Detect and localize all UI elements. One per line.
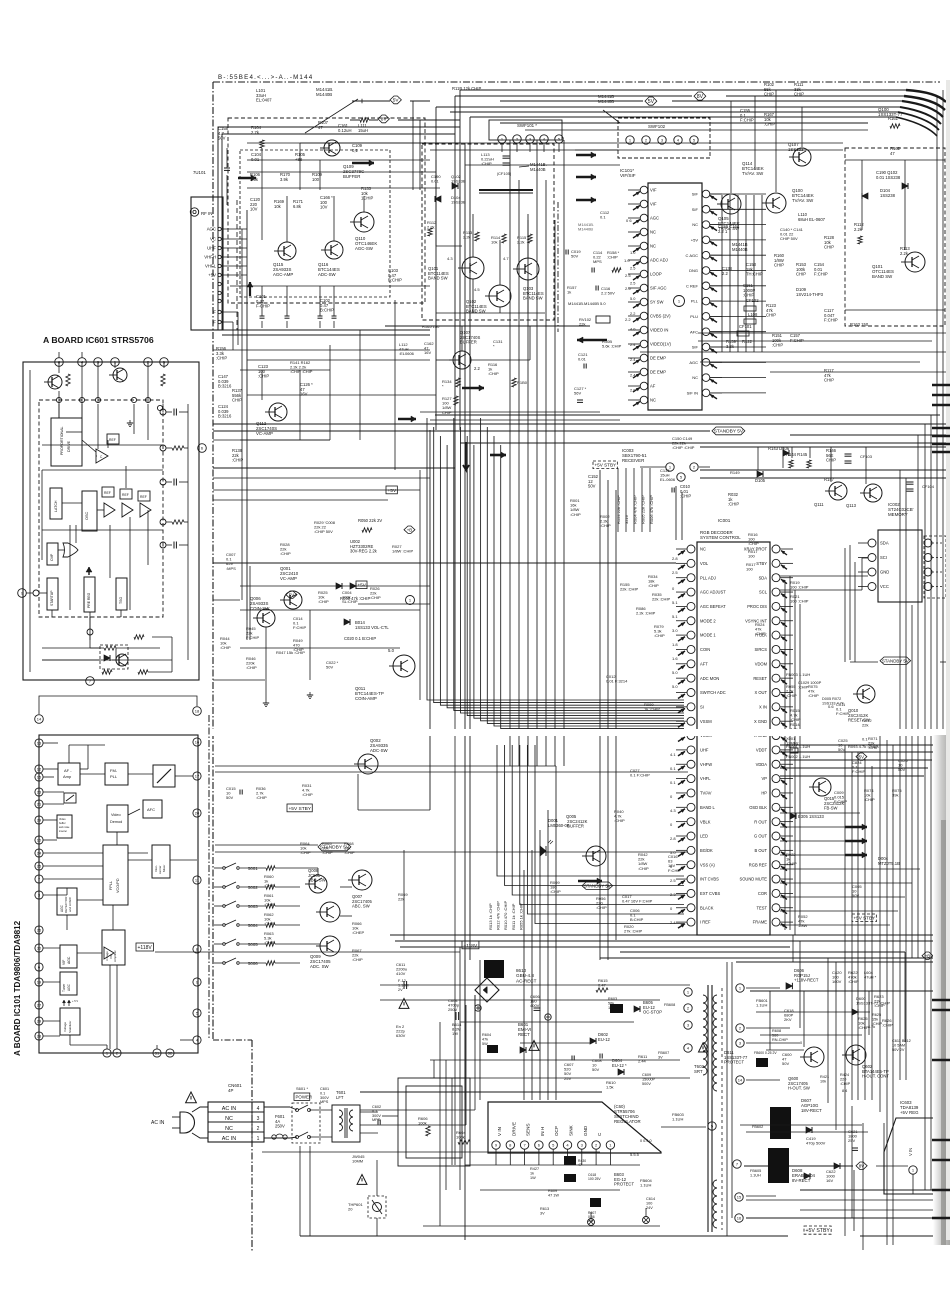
svg-text:|CF105|: |CF105| xyxy=(497,171,511,176)
wires pins top going up xyxy=(58,352,60,358)
svg-text:Demod: Demod xyxy=(110,820,122,824)
transistor Q102c xyxy=(489,285,511,307)
scan seam white band xyxy=(212,729,950,736)
svg-text:5006: 5006 xyxy=(248,961,258,966)
svg-text:AGC: AGC xyxy=(67,956,71,964)
wire x465 bottom xyxy=(464,960,466,1100)
net label +118V boxed left xyxy=(136,943,154,951)
net label 8V left xyxy=(378,115,389,123)
bold arrow into amp xyxy=(238,177,256,180)
IC101d left pin 26 xyxy=(35,926,43,934)
svg-text:AGC: AGC xyxy=(67,983,71,991)
svg-text:PLL: PLL xyxy=(691,299,699,304)
tuner wires to bus xyxy=(221,228,247,230)
wire y1035 right xyxy=(760,1034,862,1036)
svg-text:DE EMP: DE EMP xyxy=(650,370,666,375)
wire x395 vert xyxy=(394,300,396,470)
bus wire xyxy=(436,106,900,108)
T602 core xyxy=(707,985,709,1232)
svg-text:29: 29 xyxy=(37,818,42,823)
svg-text:VP: VP xyxy=(762,776,768,781)
svg-text:1.0: 1.0 xyxy=(630,250,636,255)
svg-text:SIF: SIF xyxy=(692,345,699,350)
svg-text:M1441B.M1440B 5.0: M1441B.M1440B 5.0 xyxy=(568,301,606,306)
shield dashed box band switch left xyxy=(422,144,554,320)
svg-text:2.4: 2.4 xyxy=(670,920,676,925)
IC001 right pin X OUT xyxy=(772,689,780,697)
IC101d right pin 11 xyxy=(193,876,201,884)
svg-text:NC: NC xyxy=(650,230,656,235)
svg-text:CF102: CF102 xyxy=(746,298,759,303)
bold arrow xyxy=(576,199,596,202)
svg-text:C AGC: C AGC xyxy=(686,253,699,258)
switch S001 xyxy=(223,867,226,870)
wire lower ribbon to IC001 low pins xyxy=(497,745,684,876)
svg-text:SY SW: SY SW xyxy=(650,300,663,305)
wire band sw xyxy=(435,160,437,246)
svg-text:7U101: 7U101 xyxy=(193,170,206,175)
wire y1190 xyxy=(746,1195,776,1197)
wire y991 diode row xyxy=(750,990,946,992)
node junction 1 xyxy=(406,596,415,605)
wire tuner vertical bus xyxy=(246,210,248,620)
IC003 pin 2 xyxy=(690,463,698,471)
wire y852 xyxy=(215,851,688,853)
wire y1078 xyxy=(430,1077,690,1079)
svg-text:VHFL: VHFL xyxy=(205,264,217,269)
svg-text:5.1: 5.1 xyxy=(672,600,678,605)
IC001 right pin X GND xyxy=(772,732,780,740)
svg-text:B305 1SS133: B305 1SS133 xyxy=(798,814,825,819)
svg-text:UHF: UHF xyxy=(207,246,216,251)
svg-text:L11115uH: L11115uH xyxy=(358,123,368,133)
svg-text:5001: 5001 xyxy=(248,866,258,871)
svg-text:STBY: STBY xyxy=(756,561,767,566)
right edge thick exit marks xyxy=(932,384,950,387)
svg-text:17: 17 xyxy=(195,774,200,779)
T602 lower pins xyxy=(735,1193,743,1201)
wire x455 bottom xyxy=(454,700,456,1165)
IC001 right pin OSD BLK xyxy=(772,803,780,811)
T602 primary pins xyxy=(684,988,692,996)
IC001 left pin BAND L xyxy=(687,803,695,811)
warning triangle3 xyxy=(699,1043,708,1052)
svg-text:R011 1k :CHIP: R011 1k :CHIP xyxy=(511,903,516,930)
svg-text:5V: 5V xyxy=(859,754,864,759)
svg-text:29: 29 xyxy=(37,1019,42,1024)
svg-text:STANDBY 5V: STANDBY 5V xyxy=(882,658,909,663)
svg-text:+ 5 V: + 5 V xyxy=(72,999,78,1003)
IC601 regulator pin circle 3 xyxy=(578,1141,586,1149)
svg-text:FRAME: FRAME xyxy=(753,920,768,925)
svg-text:5.0: 5.0 xyxy=(388,648,395,653)
wire 8V left stub xyxy=(350,119,360,121)
IC001 right pin RGB REF xyxy=(772,861,780,869)
svg-text:Voltage: Voltage xyxy=(63,1022,67,1032)
wire x247 bottom xyxy=(246,620,248,640)
svg-text:STANDBY 5V: STANDBY 5V xyxy=(714,429,744,435)
IC002 right pin xyxy=(924,568,932,576)
svg-text:A BOARD IC601 STRS5706: A BOARD IC601 STRS5706 xyxy=(43,335,154,345)
bus wire y470 xyxy=(700,469,946,471)
bottom cluster dashed box xyxy=(100,645,128,669)
SWF102 pin 5 xyxy=(690,136,698,144)
svg-text:DNG: DNG xyxy=(689,268,698,273)
IC002 dashed box xyxy=(924,536,946,598)
svg-text:R153100kCHIP: R153100kCHIP xyxy=(796,262,807,277)
svg-text:15: 15 xyxy=(737,1195,742,1200)
svg-text:FB6051.1UH: FB6051.1UH xyxy=(750,1169,761,1177)
wire x676 vertical xyxy=(675,486,677,540)
warning triangle AC xyxy=(186,1092,197,1103)
bus wire standby xyxy=(213,430,710,432)
dash-dot shield boundary vertical xyxy=(557,202,559,332)
net label +118V xyxy=(462,941,479,949)
IC001 left pin I REF xyxy=(687,918,695,926)
svg-text:X GND: X GND xyxy=(754,719,767,724)
wire x804 vert xyxy=(803,991,805,1047)
SWF102 pin 2 xyxy=(642,136,650,144)
IC001 left pin AGC ADJUST xyxy=(687,588,695,596)
svg-text:AGC ADJUST: AGC ADJUST xyxy=(700,590,726,595)
svg-text:REF: REF xyxy=(122,493,129,497)
svg-text:SIRCS: SIRCS xyxy=(754,647,767,652)
svg-text:FB608: FB608 xyxy=(664,1003,675,1007)
wire y1022 xyxy=(460,1021,634,1023)
voltage stab arrows xyxy=(63,1000,65,1006)
svg-text:21: 21 xyxy=(37,802,42,807)
transistor Q113 xyxy=(864,484,882,502)
svg-text:IF: IF xyxy=(212,320,216,325)
svg-text:+5V: +5V xyxy=(208,273,216,278)
IC601 pin 6 right xyxy=(198,444,207,453)
shield dashed box AGC inner xyxy=(240,150,390,297)
scan gutter xyxy=(933,735,950,1245)
svg-text:15: 15 xyxy=(37,775,42,780)
wire x905 vert xyxy=(904,952,906,1042)
svg-text:+B: +B xyxy=(925,953,931,958)
IC601 dashed-edge circles xyxy=(56,397,61,402)
wire regulator to T602 xyxy=(661,1126,706,1128)
svg-text:4: 4 xyxy=(257,1106,260,1112)
wire xyxy=(454,96,456,700)
svg-text:R143 D106: R143 D106 xyxy=(768,446,790,451)
IC101d left pin 12 xyxy=(35,765,43,773)
svg-text:SIF IN: SIF IN xyxy=(687,391,698,396)
bus wire with 8V label xyxy=(455,95,692,97)
caps row xyxy=(260,315,265,317)
svg-text:+5V: +5V xyxy=(691,238,699,243)
SWF102 pin 1 xyxy=(626,136,634,144)
wire y341 right xyxy=(698,340,932,342)
wire nested box bottom xyxy=(218,329,430,331)
comparator triangles x3 xyxy=(104,503,115,517)
svg-text:3: 3 xyxy=(257,1116,260,1122)
svg-text:M1441B.M1440B: M1441B.M1440B xyxy=(578,222,594,232)
IC101 left pin ADC ADJ xyxy=(640,256,648,264)
IC002 body xyxy=(878,530,922,602)
svg-text:14: 14 xyxy=(37,717,42,722)
svg-text:STANDBY 5V: STANDBY 5V xyxy=(584,883,611,888)
svg-text:R047 15k :CHIP: R047 15k :CHIP xyxy=(276,650,305,655)
svg-text:COIN: COIN xyxy=(700,647,710,652)
bold arrow on bus xyxy=(398,418,416,421)
IC101d left pin 27 xyxy=(35,1001,43,1009)
switch S003 xyxy=(223,905,226,908)
wire y985 xyxy=(380,984,690,986)
svg-text:B OUT: B OUT xyxy=(754,848,767,853)
svg-text:VOL: VOL xyxy=(700,561,709,566)
degauss verticals xyxy=(433,1060,435,1078)
wire IC002 verticals xyxy=(844,548,846,662)
IC101d left pin 7 xyxy=(35,875,43,883)
dashed vertical near tuner xyxy=(236,200,238,330)
IC101 left pin NC xyxy=(640,242,648,250)
IC002 right pin xyxy=(924,539,932,547)
svg-text:M1441B.M1440B: M1441B.M1440B xyxy=(530,162,547,172)
svg-text:0 6: 0 6 xyxy=(626,218,632,223)
svg-text:R050 22k 2V: R050 22k 2V xyxy=(358,518,382,523)
wire xyxy=(249,566,251,640)
bold arrow xyxy=(576,154,596,157)
switch S002 xyxy=(223,886,226,889)
transistor Q005 xyxy=(586,846,606,866)
tuner RF IN jack xyxy=(190,208,198,216)
wire y352 right xyxy=(640,351,946,353)
IC101 right maze horizontals xyxy=(710,193,766,195)
IC001 right pin SOUND MUTE xyxy=(772,875,780,883)
resistor bottom r4 xyxy=(102,670,112,674)
wire x420 xyxy=(419,470,421,700)
svg-text:TV/AV: TV/AV xyxy=(700,791,712,796)
svg-text:2.2: 2.2 xyxy=(625,317,631,322)
wire xyxy=(358,603,430,605)
block AFC xyxy=(143,800,162,818)
wire x682 vertical xyxy=(681,492,683,540)
svg-text:SCL: SCL xyxy=(759,590,768,595)
wire y662 standby right xyxy=(850,661,878,663)
resistor inline 2 xyxy=(361,99,363,103)
svg-text:25: 25 xyxy=(37,864,42,869)
filter CF105 xyxy=(503,155,510,157)
svg-text:SOUND MUTE: SOUND MUTE xyxy=(739,877,767,882)
resistor R430 black xyxy=(564,1156,576,1165)
wire y395 xyxy=(247,394,436,396)
block FPLL VCO/PD xyxy=(103,845,128,905)
svg-text:SWF101 *: SWF101 * xyxy=(517,123,537,128)
SWF102 pin 4 xyxy=(674,136,682,144)
svg-text:18: 18 xyxy=(195,709,200,714)
diode D608 black body xyxy=(768,1148,789,1183)
wire xyxy=(240,647,400,649)
IC001 body xyxy=(697,542,770,935)
svg-text:AGC BEFEAT: AGC BEFEAT xyxy=(700,604,726,609)
svg-text:1.0: 1.0 xyxy=(624,258,630,263)
block PRE REG xyxy=(84,577,95,612)
svg-text:C REF: C REF xyxy=(686,283,699,288)
svg-text:14: 14 xyxy=(738,1078,743,1083)
wire y1043 xyxy=(520,1042,590,1044)
wire vertical x413 xyxy=(412,101,414,190)
IC002 pin GND xyxy=(868,568,876,576)
svg-text:+B: +B xyxy=(407,527,413,532)
internal bus lines xyxy=(107,440,109,448)
resistor bottom r3 xyxy=(104,646,116,650)
block 3stage VIF amplifier xyxy=(102,930,125,965)
net label +8 xyxy=(404,526,415,533)
T602 secondary pins xyxy=(736,984,744,992)
wires AC area xyxy=(264,1106,290,1108)
wire y326 xyxy=(385,325,590,327)
page border dash-dot frame top xyxy=(213,81,940,83)
tuner TU101 body xyxy=(191,197,223,330)
IC001 right pin H BLK xyxy=(772,631,780,639)
resistor inline 8V xyxy=(360,118,369,122)
wire y1050 right xyxy=(766,1049,804,1051)
warning triangle1 xyxy=(399,999,409,1009)
bus wire y478 xyxy=(700,477,946,479)
IC101 left pin NC xyxy=(640,396,648,404)
black box R609 xyxy=(564,1174,576,1182)
wire y1132 xyxy=(746,1131,868,1133)
svg-text:5V: 5V xyxy=(393,98,400,104)
svg-text:X IN: X IN xyxy=(759,704,767,709)
svg-text:Video: Video xyxy=(59,817,66,821)
bus wire y143 long xyxy=(300,142,843,144)
page border dash-dot frame left lower jog xyxy=(213,1039,252,1041)
IC601 internal wires xyxy=(58,362,60,373)
svg-text:Q113: Q113 xyxy=(846,503,857,508)
svg-text:R099 47k :CHIP: R099 47k :CHIP xyxy=(340,596,370,601)
svg-text:C020 0.1 B:CHIP: C020 0.1 B:CHIP xyxy=(344,636,376,641)
bridge rectifier 8610 xyxy=(475,978,499,1002)
bus wire y150 long xyxy=(430,149,843,151)
net label POWER boxed xyxy=(294,1093,310,1100)
wire xyxy=(357,774,359,810)
IC101d left pin 25 xyxy=(35,862,43,870)
wires to IC603 xyxy=(876,1165,908,1167)
IC101d pin 18 xyxy=(193,707,202,716)
block AF Amp xyxy=(58,763,80,785)
wire y1200 xyxy=(746,1199,946,1201)
IC101 right maze verticals xyxy=(721,195,723,352)
thick bus segment xyxy=(479,189,533,191)
svg-text:1: 1 xyxy=(257,1136,260,1142)
net label +B right xyxy=(922,952,933,959)
wire y1210 xyxy=(800,1209,946,1211)
svg-text:12: 12 xyxy=(37,767,42,772)
svg-text:PLL ADJ: PLL ADJ xyxy=(700,575,716,580)
svg-text:REF: REF xyxy=(109,438,116,442)
wire pin14 to pin18 xyxy=(39,696,197,714)
wire y952 right xyxy=(620,951,905,953)
resistor R607 black xyxy=(590,1198,601,1207)
bus wire xyxy=(435,414,940,416)
wire nested box bottom2 xyxy=(222,334,430,336)
IC101d outer box xyxy=(39,735,198,1053)
svg-text:Amplifier: Amplifier xyxy=(113,950,117,962)
block PROPORTIONAL DRIVE xyxy=(51,418,82,466)
warning triangle4 xyxy=(357,1175,367,1185)
wire x360 vert xyxy=(359,330,361,440)
bold arrow to right xyxy=(352,162,374,165)
svg-text:EXT CVBS: EXT CVBS xyxy=(700,891,720,896)
svg-text:VIDEO IN: VIDEO IN xyxy=(650,328,668,333)
wires band switch box xyxy=(845,159,945,161)
AC plug xyxy=(180,1112,195,1133)
IC002 right pin xyxy=(924,554,932,562)
svg-text:CF101: CF101 xyxy=(739,324,752,329)
shield dashed box AGC amp xyxy=(228,118,425,303)
svg-text:SDA: SDA xyxy=(880,541,889,546)
IC601 regulator pin circle 4 xyxy=(563,1141,571,1149)
svg-text:VDOM: VDOM xyxy=(755,661,768,666)
svg-text:2.2: 2.2 xyxy=(474,366,480,371)
diode D608 inline xyxy=(834,1163,840,1169)
block LATCH xyxy=(50,488,62,519)
svg-text:VSS (A): VSS (A) xyxy=(700,862,715,867)
IC001 right pin RESET xyxy=(772,674,780,682)
svg-text:R626:CHIP: R626:CHIP xyxy=(882,1018,893,1028)
svg-text:FB6031.1UH: FB6031.1UH xyxy=(672,1112,685,1122)
svg-text:VDDT: VDDT xyxy=(756,748,768,753)
wire x452 xyxy=(451,1078,453,1165)
wire label column verticals xyxy=(617,468,619,532)
svg-text:V IN: V IN xyxy=(497,1127,502,1136)
switch S004 xyxy=(223,924,226,927)
svg-text:5003: 5003 xyxy=(248,904,258,909)
transistor Q001 xyxy=(284,591,302,609)
svg-text:ADC MON: ADC MON xyxy=(700,676,719,681)
block STARTUP xyxy=(47,578,58,610)
net label +5V boxed mid xyxy=(386,486,397,494)
resistor R064 xyxy=(266,942,275,946)
cap res row xyxy=(591,268,593,273)
gutter dark streaks xyxy=(941,820,946,1245)
svg-text:R165 150: R165 150 xyxy=(422,324,440,329)
svg-text:30: 30 xyxy=(37,946,42,951)
IC001 left pin VSSM xyxy=(687,717,695,725)
bus wire y165 xyxy=(465,164,620,166)
bus wire y563 xyxy=(213,562,676,564)
IC001 left pin EXT CVBS xyxy=(687,889,695,897)
IC101d left pin 29 xyxy=(35,816,43,824)
block VIF AGC xyxy=(60,945,77,968)
IC001 left pin VSSM xyxy=(687,732,695,740)
resistor R062 xyxy=(266,904,275,908)
circled plus C606 xyxy=(545,1014,551,1020)
PRE REG arrow xyxy=(88,567,90,575)
svg-text:SINK: SINK xyxy=(569,1124,574,1136)
IC101d bottom pin 2 xyxy=(113,1049,121,1057)
block slope xyxy=(153,765,175,787)
svg-text:R055 1k :CHIP: R055 1k :CHIP xyxy=(518,903,523,930)
transistor Q103b xyxy=(517,258,539,280)
svg-text:4.5: 4.5 xyxy=(474,287,480,292)
bus wire xyxy=(450,111,898,113)
IC003 pin 1 xyxy=(666,463,674,471)
IC001 left pin VHFW xyxy=(687,760,695,768)
svg-text:OSD BLK: OSD BLK xyxy=(749,805,767,810)
T602 windings left xyxy=(703,995,707,1003)
svg-text:Stabilizer: Stabilizer xyxy=(68,1021,72,1033)
IC001 right pin X GND xyxy=(772,717,780,725)
net label +5V STBY bottom xyxy=(804,1226,831,1234)
transistor Q603 xyxy=(804,1047,824,1067)
svg-text:AGC: AGC xyxy=(207,227,216,232)
IC002 pin SDA xyxy=(868,539,876,547)
wire x727 vertical xyxy=(726,962,728,1236)
